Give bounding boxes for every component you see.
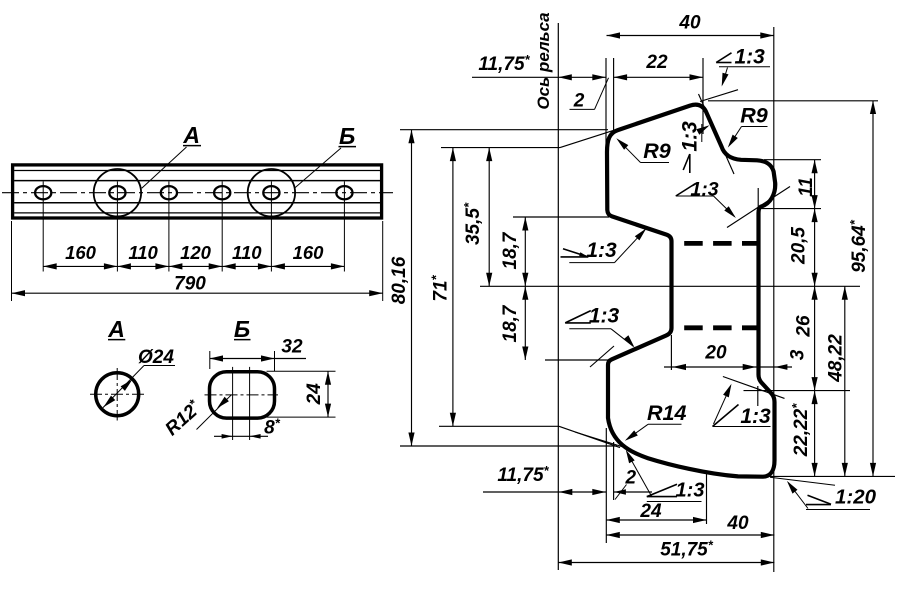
svg-text:11,75*: 11,75* — [478, 52, 530, 75]
svg-text:1:20: 1:20 — [835, 486, 877, 509]
svg-text:11: 11 — [796, 177, 817, 197]
svg-text:32: 32 — [281, 337, 303, 358]
svg-text:А: А — [182, 122, 200, 148]
svg-text:R14: R14 — [647, 401, 686, 425]
svg-text:Ø24: Ø24 — [138, 347, 174, 368]
svg-text:35,5*: 35,5* — [461, 202, 484, 245]
svg-text:1:3: 1:3 — [679, 121, 702, 152]
svg-text:Б: Б — [339, 123, 355, 149]
svg-text:R9: R9 — [643, 139, 671, 163]
svg-text:22: 22 — [645, 52, 668, 73]
svg-text:40: 40 — [726, 513, 749, 534]
svg-text:А: А — [107, 316, 125, 342]
svg-text:790: 790 — [174, 274, 206, 295]
svg-text:1:3: 1:3 — [586, 239, 617, 262]
svg-text:20: 20 — [704, 343, 727, 364]
svg-text:1:3: 1:3 — [589, 305, 620, 328]
svg-text:18,7: 18,7 — [500, 304, 521, 342]
svg-text:110: 110 — [128, 242, 158, 263]
svg-text:18,7: 18,7 — [500, 231, 521, 269]
svg-text:22,22*: 22,22* — [789, 403, 812, 458]
svg-text:24: 24 — [304, 383, 325, 406]
svg-text:120: 120 — [180, 242, 212, 263]
svg-text:1:3: 1:3 — [735, 46, 766, 69]
svg-text:3: 3 — [788, 349, 809, 360]
svg-text:R9: R9 — [740, 104, 768, 128]
svg-text:24: 24 — [639, 501, 662, 522]
svg-text:Ось рельса: Ось рельса — [534, 12, 553, 109]
svg-text:80,16: 80,16 — [389, 256, 410, 304]
svg-text:26: 26 — [794, 315, 815, 338]
svg-text:110: 110 — [232, 242, 262, 263]
svg-text:Б: Б — [234, 316, 250, 342]
svg-text:160: 160 — [293, 242, 325, 263]
svg-text:51,75*: 51,75* — [660, 538, 714, 561]
svg-text:11,75*: 11,75* — [497, 463, 549, 486]
svg-text:40: 40 — [678, 13, 701, 34]
svg-text:160: 160 — [65, 242, 97, 263]
svg-text:1:3: 1:3 — [740, 405, 771, 428]
svg-text:95,64*: 95,64* — [847, 219, 870, 273]
svg-text:20,5: 20,5 — [789, 227, 810, 265]
svg-text:1:3: 1:3 — [676, 479, 705, 501]
svg-text:48,22: 48,22 — [826, 334, 847, 383]
svg-text:2: 2 — [573, 91, 585, 112]
